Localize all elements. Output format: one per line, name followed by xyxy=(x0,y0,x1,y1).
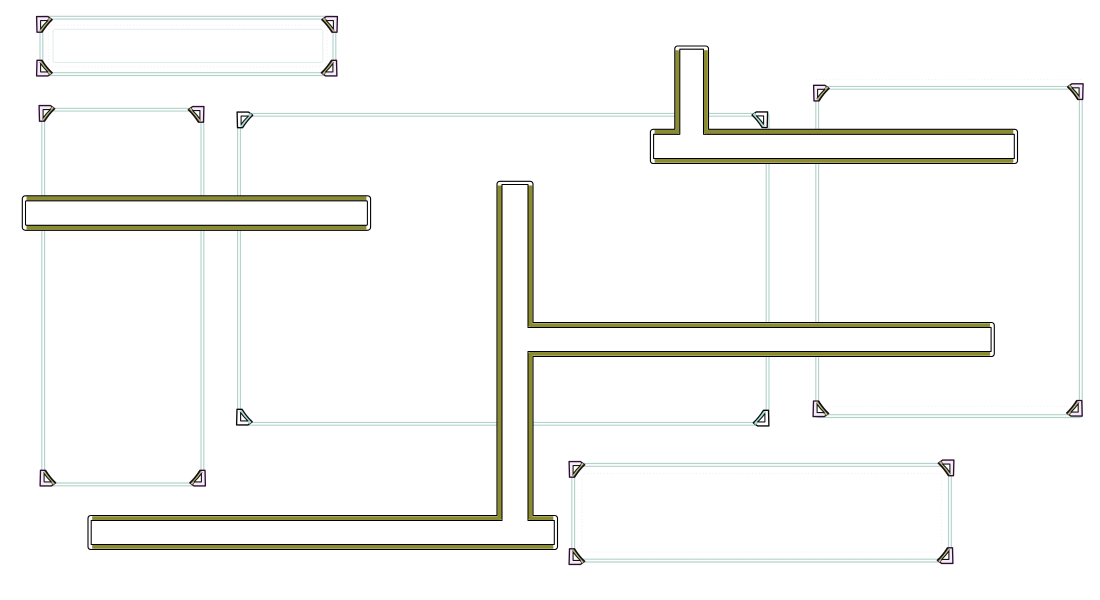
wall W3 large T with base xyxy=(88,181,994,549)
corner marker B-TL xyxy=(39,106,55,122)
zone outline B xyxy=(42,108,204,486)
faint ghost lines D xyxy=(816,79,1082,406)
corner marker D-BR xyxy=(1067,401,1083,417)
corner marker D-BL xyxy=(813,401,829,417)
corner marker A-BL xyxy=(37,60,53,76)
wall W1 horizontal bar xyxy=(22,196,370,231)
corner marker A-BR xyxy=(321,60,337,76)
zone outline A xyxy=(40,16,336,75)
corner marker A-TL xyxy=(37,17,53,33)
corner marker C-BL xyxy=(237,409,253,425)
corner marker B-BL xyxy=(40,470,56,486)
corner marker A-TR xyxy=(322,17,338,33)
corner marker E-TR xyxy=(938,460,954,476)
corner marker E-BL xyxy=(569,549,585,565)
faint inner ring A xyxy=(49,25,327,67)
corner marker C-BR xyxy=(753,410,769,426)
zone outline D xyxy=(816,86,1082,417)
corner marker C-TL xyxy=(237,112,253,128)
corner marker D-TL xyxy=(814,85,830,101)
faint inner ring E xyxy=(582,474,942,553)
corner marker E-TL xyxy=(569,462,585,478)
corner marker B-TR xyxy=(188,107,204,123)
corner marker C-TR xyxy=(752,112,768,128)
zone outline E xyxy=(572,464,952,563)
corner marker B-BR xyxy=(190,470,206,486)
wall W2 T-shape top xyxy=(650,46,1017,164)
corner marker E-BR xyxy=(937,548,953,564)
corner marker D-TR xyxy=(1068,84,1084,100)
zone outline C xyxy=(238,113,769,425)
